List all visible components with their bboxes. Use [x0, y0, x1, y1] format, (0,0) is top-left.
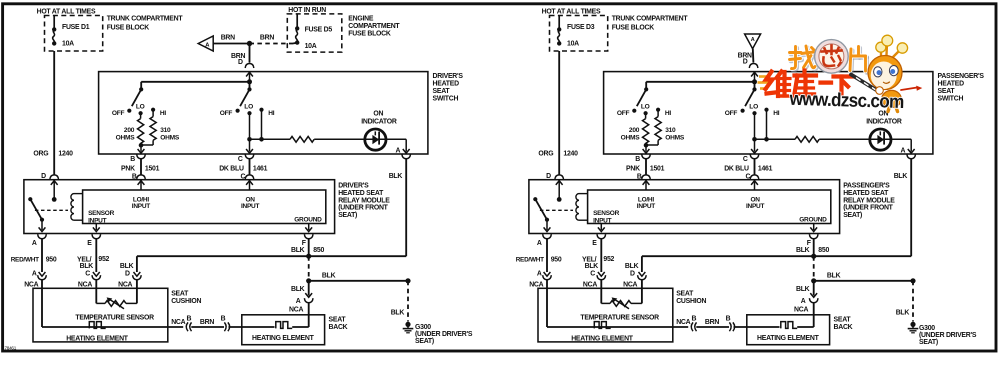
- svg-text:BACK: BACK: [834, 324, 853, 331]
- driver seat back box: [242, 315, 325, 345]
- svg-text:ENGINE: ENGINE: [348, 16, 374, 23]
- svg-text:NCA: NCA: [78, 281, 92, 288]
- svg-text:FUSE BLOCK: FUSE BLOCK: [348, 30, 391, 37]
- ground junction under relay module: [811, 254, 816, 259]
- svg-text:1501: 1501: [650, 165, 665, 172]
- svg-text:HEATED: HEATED: [433, 81, 460, 88]
- seat cushion heating element wire: [546, 288, 548, 327]
- watermark speed dashes: [759, 75, 768, 78]
- svg-text:BLK: BLK: [796, 247, 810, 254]
- svg-text:OFF: OFF: [725, 110, 738, 117]
- watermark magnifier with chip character: [817, 42, 846, 71]
- relay switch contact (upper): [28, 197, 32, 201]
- resistor 200 OHMS: [140, 113, 142, 118]
- ground junction under relay module: [306, 254, 311, 259]
- wire ORG 1240 from fuse down to relay module D (driver): [53, 51, 55, 175]
- relay mechanical link (dashed): [540, 209, 573, 211]
- driver seat cushion box: [33, 288, 168, 342]
- svg-text:NCA: NCA: [583, 281, 597, 288]
- watermark character pian (chip): [851, 51, 852, 73]
- svg-text:HOT AT ALL TIMES: HOT AT ALL TIMES: [37, 8, 96, 15]
- svg-text:BLK: BLK: [80, 263, 94, 270]
- lower ground junction: [811, 278, 816, 283]
- svg-text:HEATING ELEMENT: HEATING ELEMENT: [66, 336, 129, 343]
- svg-text:HEATED SEAT: HEATED SEAT: [843, 190, 889, 197]
- switch S2 OFF contact: [236, 109, 240, 113]
- svg-text:OFF: OFF: [617, 110, 630, 117]
- dashed BLK wire to ground G300: [912, 281, 914, 322]
- watermark character zhao (find): [793, 48, 797, 70]
- svg-text:INDICATOR: INDICATOR: [866, 118, 902, 125]
- wire YEL/BLK 952: [95, 239, 97, 272]
- svg-text:RELAY MODULE: RELAY MODULE: [338, 197, 390, 204]
- wire PNK 1501 from switch B to relay LO/HI input: [140, 159, 142, 175]
- svg-text:C: C: [590, 271, 595, 278]
- dashed BLK wire from junction down: [813, 256, 815, 281]
- switch S1 OFF contact: [632, 109, 636, 113]
- seat back heating element: [276, 322, 292, 329]
- svg-text:A: A: [751, 37, 755, 43]
- svg-text:952: 952: [603, 256, 614, 263]
- switch S1 HI contact: [151, 108, 155, 112]
- wire to indicator resistor: [755, 138, 796, 140]
- svg-text:OFF: OFF: [112, 110, 125, 117]
- svg-text:TRUNK COMPARTMENT: TRUNK COMPARTMENT: [612, 16, 689, 23]
- svg-text:HEATED: HEATED: [938, 81, 965, 88]
- svg-text:SEAT: SEAT: [171, 291, 189, 298]
- svg-text:HEATING ELEMENT: HEATING ELEMENT: [252, 335, 315, 342]
- passenger heated seat switch box: [604, 72, 933, 154]
- wire joining resistors to terminal B: [152, 140, 154, 145]
- ground G300: [405, 322, 410, 327]
- wire BLK to G300 branch: [814, 280, 913, 282]
- wire from indicator to terminal A of switch: [405, 139, 407, 151]
- passenger seat cushion box: [538, 288, 673, 342]
- svg-text:(UNDER FRONT: (UNDER FRONT: [338, 205, 388, 212]
- svg-text:1501: 1501: [145, 165, 160, 172]
- svg-text:A: A: [396, 148, 401, 155]
- svg-text:A: A: [32, 240, 37, 247]
- switch S1 pivot (mode switch): [139, 87, 143, 91]
- svg-text:952: 952: [98, 256, 109, 263]
- relay switch arm: [30, 199, 42, 220]
- svg-text:B: B: [187, 316, 192, 323]
- wire BLK from junction to seat cushion connector D: [137, 255, 309, 257]
- wire BRN into seat back: [229, 326, 275, 328]
- thermistor arrow: [614, 299, 629, 309]
- connector triangle A (to passenger seat circuit): [745, 34, 761, 49]
- svg-text:BLK: BLK: [291, 286, 305, 293]
- svg-text:SWITCH: SWITCH: [938, 95, 964, 102]
- svg-text:NCA: NCA: [623, 281, 637, 288]
- wire from S2 HI to indicator feed: [261, 110, 263, 140]
- svg-text:DRIVER'S: DRIVER'S: [433, 73, 464, 80]
- wire DK BLU 1461 from switch C to relay ON input: [754, 159, 756, 175]
- switch S2 OFF contact: [741, 109, 745, 113]
- svg-text:BLK: BLK: [896, 310, 910, 317]
- svg-text:B: B: [221, 316, 226, 323]
- switch S1 arm (pointing to OFF): [132, 89, 141, 106]
- svg-text:950: 950: [46, 257, 57, 264]
- relay coil: [579, 193, 588, 195]
- svg-text:LO: LO: [136, 103, 145, 110]
- wire from S2 LO down to terminal C: [754, 113, 756, 151]
- svg-text:www.dzsc.com: www.dzsc.com: [788, 89, 903, 113]
- svg-text:HEATING ELEMENT: HEATING ELEMENT: [571, 336, 634, 343]
- switch S2 pivot (on/off switch): [247, 87, 251, 91]
- driver relay module inner control box: [83, 190, 326, 224]
- svg-text:SENSOR: SENSOR: [88, 210, 115, 217]
- relay coil: [74, 193, 83, 195]
- svg-text:SEAT): SEAT): [415, 338, 434, 345]
- wire BLK from junction to seat cushion connector D: [642, 255, 814, 257]
- wire ORG 1240 from fuse down to relay module D (passenger): [558, 51, 560, 175]
- svg-text:CUSHION: CUSHION: [171, 298, 201, 305]
- svg-text:HOT IN RUN: HOT IN RUN: [288, 7, 326, 14]
- svg-text:HI: HI: [773, 110, 780, 117]
- wire from S2 LO down to terminal C: [249, 113, 251, 151]
- svg-text:LO: LO: [749, 103, 758, 110]
- svg-text:NCA: NCA: [529, 281, 543, 288]
- svg-text:SEAT): SEAT): [919, 339, 938, 346]
- svg-text:BLK: BLK: [291, 247, 305, 254]
- svg-text:FUSE D1: FUSE D1: [62, 24, 90, 31]
- svg-text:B: B: [635, 156, 640, 163]
- svg-text:INDICATOR: INDICATOR: [361, 118, 397, 125]
- jumper wire BRN between connectors: [696, 326, 729, 328]
- relay coil feed dot from D: [557, 197, 562, 202]
- switch S2 arm (pointing to OFF): [240, 89, 249, 106]
- switch S1 LO contact: [644, 111, 648, 115]
- switch S2 HI contact: [259, 108, 263, 112]
- seat cushion heating element: [89, 322, 105, 329]
- lower ground junction: [306, 278, 311, 283]
- relay switch contact (upper): [533, 197, 537, 201]
- wire RED/WHT 950: [41, 239, 43, 272]
- svg-text:SEAT: SEAT: [938, 88, 956, 95]
- svg-text:LO: LO: [641, 103, 650, 110]
- driver heated seat switch box: [99, 72, 428, 154]
- inline connector B (seat back side): [224, 322, 226, 331]
- switch S2 HI contact: [764, 108, 768, 112]
- passenger heated seat relay module outer box: [529, 180, 840, 234]
- wire YEL/BLK 952: [600, 239, 602, 272]
- wire BRN into seat back: [734, 326, 780, 328]
- svg-text:HEATING ELEMENT: HEATING ELEMENT: [757, 335, 820, 342]
- dashed BRN wire to fuse D5: [250, 43, 294, 45]
- svg-text:FUSE BLOCK: FUSE BLOCK: [612, 25, 655, 32]
- svg-text:1240: 1240: [563, 151, 578, 158]
- svg-text:DK BLU: DK BLU: [724, 165, 749, 172]
- wire RED/WHT 950: [546, 239, 548, 272]
- switch S2 pivot (on/off switch): [752, 87, 756, 91]
- svg-text:RED/WHT: RED/WHT: [516, 257, 544, 264]
- svg-text:OHMS: OHMS: [116, 134, 136, 141]
- junction of feed rail and D input: [752, 79, 757, 84]
- wire BRN from triangle down into passenger switch: [752, 49, 755, 63]
- wire joining resistors to terminal B: [657, 140, 659, 145]
- watermark red text wei ku yi xia: [766, 72, 773, 90]
- svg-text:850: 850: [313, 247, 324, 254]
- relay mechanical link (dashed): [35, 209, 68, 211]
- svg-text:INPUT: INPUT: [132, 203, 151, 210]
- passenger relay module inner control box: [588, 190, 831, 224]
- svg-text:850: 850: [818, 247, 829, 254]
- svg-text:(UNDER FRONT: (UNDER FRONT: [843, 205, 893, 212]
- svg-text:DK BLU: DK BLU: [219, 165, 244, 172]
- trunk compartment fuse block (dashed box, driver): [45, 16, 103, 52]
- wire from S2 HI to indicator feed: [766, 110, 768, 140]
- svg-text:BLK: BLK: [827, 272, 841, 279]
- svg-text:BLK: BLK: [322, 272, 336, 279]
- svg-text:310: 310: [665, 127, 676, 134]
- svg-text:BRN: BRN: [200, 319, 214, 326]
- wire PNK 1501 from switch B to relay LO/HI input: [645, 159, 647, 175]
- watermark mascot: [851, 35, 922, 111]
- svg-text:BLK: BLK: [391, 310, 405, 317]
- relay output to terminal A: [546, 220, 548, 230]
- svg-text:C: C: [85, 271, 90, 278]
- svg-text:D: D: [238, 59, 243, 66]
- switch S1 OFF contact: [127, 109, 131, 113]
- wire BRN from triangle to junction: [213, 43, 249, 45]
- switch S1 LO contact: [139, 111, 143, 115]
- svg-text:950: 950: [551, 257, 562, 264]
- wire BLK to G300 branch: [309, 280, 408, 282]
- svg-text:SENSOR: SENSOR: [593, 210, 620, 217]
- svg-text:A: A: [537, 240, 542, 247]
- fuse D1 symbol: [53, 16, 55, 30]
- junction of feed rail and D input: [247, 79, 252, 84]
- svg-text:SEAT): SEAT): [843, 212, 862, 219]
- svg-text:PNK: PNK: [121, 165, 135, 172]
- switch S1 arm (pointing to OFF): [637, 89, 646, 106]
- svg-text:SEAT: SEAT: [329, 317, 347, 324]
- svg-text:HEATED SEAT: HEATED SEAT: [338, 190, 384, 197]
- svg-text:NCA: NCA: [289, 307, 303, 314]
- svg-text:INPUT: INPUT: [88, 217, 107, 224]
- svg-text:A: A: [537, 271, 542, 278]
- svg-text:D: D: [743, 58, 748, 65]
- relay coil feed dot from D: [52, 197, 57, 202]
- dashed BLK wire to ground G300: [407, 281, 409, 322]
- trunk compartment fuse block (dashed box, passenger): [550, 16, 608, 52]
- svg-text:C: C: [238, 156, 243, 163]
- svg-text:C: C: [743, 156, 748, 163]
- svg-text:BLK: BLK: [120, 263, 134, 270]
- svg-text:E: E: [592, 240, 597, 247]
- svg-text:NCA: NCA: [24, 281, 38, 288]
- wire BLK 850 from ground terminal: [308, 239, 310, 256]
- wire BLK to seat back heating element: [308, 281, 310, 296]
- svg-text:SEAT: SEAT: [676, 291, 694, 298]
- svg-text:ON: ON: [373, 111, 383, 118]
- svg-text:NCA: NCA: [676, 319, 690, 326]
- relay switch contact to output A: [40, 218, 44, 222]
- ON indicator LED L1: [365, 138, 406, 140]
- resistor 310 OHMS: [152, 110, 154, 117]
- junction of BRN feed: [247, 41, 252, 46]
- svg-text:B: B: [692, 316, 697, 323]
- fuse D5 symbol: [296, 14, 298, 29]
- switch S1 pivot (mode switch): [644, 87, 648, 91]
- connector triangle A (to driver seat circuit): [198, 36, 213, 51]
- svg-text:OFF: OFF: [220, 110, 233, 117]
- svg-text:310: 310: [160, 127, 171, 134]
- wire from resistor to ON indicator: [819, 138, 870, 140]
- switch S2 LO contact: [752, 111, 756, 115]
- driver heated seat relay module outer box: [24, 180, 335, 234]
- wire BLK 850 from ground terminal: [813, 239, 815, 256]
- svg-text:A: A: [32, 271, 37, 278]
- watermark group: [758, 35, 923, 113]
- svg-text:ORG: ORG: [33, 151, 48, 158]
- seat cushion heating element: [594, 322, 610, 329]
- svg-text:INPUT: INPUT: [593, 217, 612, 224]
- resistor 310 OHMS: [657, 110, 659, 117]
- svg-text:HI: HI: [268, 110, 275, 117]
- resistor 200 OHMS: [645, 113, 647, 118]
- relay switch contact to output A: [545, 218, 549, 222]
- svg-text:PASSENGER'S: PASSENGER'S: [938, 73, 985, 80]
- svg-text:HOT AT ALL TIMES: HOT AT ALL TIMES: [542, 8, 601, 15]
- svg-text:200: 200: [124, 127, 135, 134]
- svg-text:OHMS: OHMS: [621, 134, 641, 141]
- svg-text:A: A: [901, 148, 906, 155]
- temperature sensor thermistor: [601, 302, 610, 304]
- wire: feed rail inside switch box: [646, 81, 754, 83]
- dashed BLK wire from junction down: [308, 256, 310, 281]
- svg-text:B: B: [130, 156, 135, 163]
- svg-text:1461: 1461: [253, 165, 268, 172]
- svg-text:INPUT: INPUT: [746, 203, 765, 210]
- svg-text:OHMS: OHMS: [665, 134, 685, 141]
- svg-text:10A: 10A: [62, 41, 74, 48]
- wire BLK to seat back heating element: [813, 281, 815, 296]
- svg-text:DRIVER'S: DRIVER'S: [338, 183, 369, 190]
- svg-text:SEAT: SEAT: [433, 88, 451, 95]
- svg-text:BLK: BLK: [894, 173, 908, 180]
- svg-text:PASSENGER'S: PASSENGER'S: [843, 183, 890, 190]
- switch S2 LO contact: [247, 111, 251, 115]
- svg-text:SWITCH: SWITCH: [433, 95, 459, 102]
- svg-text:TEMPERATURE SENSOR: TEMPERATURE SENSOR: [580, 315, 659, 322]
- svg-text:OHMS: OHMS: [160, 134, 180, 141]
- wire from indicator to terminal A of switch: [910, 139, 912, 151]
- sensor input terminal E arrow: [95, 224, 97, 231]
- ground terminal F arrow: [813, 224, 815, 231]
- svg-text:BLK: BLK: [796, 286, 810, 293]
- svg-text:BLK: BLK: [625, 263, 639, 270]
- temperature sensor thermistor: [96, 302, 105, 304]
- svg-text:INPUT: INPUT: [241, 203, 260, 210]
- svg-text:D: D: [630, 271, 635, 278]
- svg-text:GROUND: GROUND: [799, 216, 827, 223]
- svg-text:NCA: NCA: [118, 281, 132, 288]
- svg-text:FUSE BLOCK: FUSE BLOCK: [107, 25, 150, 32]
- inline connector B (seat back side): [729, 322, 731, 331]
- passenger seat back box: [747, 315, 830, 345]
- svg-text:NCA: NCA: [794, 307, 808, 314]
- svg-text:FUSE D5: FUSE D5: [305, 27, 333, 34]
- indicator series resistor: [290, 136, 314, 142]
- svg-text:PNK: PNK: [626, 165, 640, 172]
- switch S1 HI contact: [656, 108, 660, 112]
- relay output to terminal A: [41, 220, 43, 230]
- svg-text:1461: 1461: [758, 165, 773, 172]
- wire: feed rail inside switch box: [141, 81, 249, 83]
- svg-text:CUSHION: CUSHION: [676, 298, 706, 305]
- character xin inside magnifier: [825, 49, 827, 54]
- ON indicator LED L1: [870, 138, 911, 140]
- svg-text:78461: 78461: [5, 346, 17, 351]
- indicator series resistor: [795, 136, 819, 142]
- svg-text:TEMPERATURE SENSOR: TEMPERATURE SENSOR: [75, 315, 154, 322]
- svg-text:B: B: [726, 316, 731, 323]
- svg-text:BRN: BRN: [705, 319, 719, 326]
- fuse D3 symbol: [558, 16, 560, 30]
- ground terminal F arrow: [308, 224, 310, 231]
- svg-text:200: 200: [629, 127, 640, 134]
- switch S2 arm (pointing to OFF): [745, 89, 754, 106]
- ground G300: [910, 322, 915, 327]
- svg-text:10A: 10A: [305, 43, 317, 50]
- svg-text:HI: HI: [665, 110, 672, 117]
- svg-text:RELAY MODULE: RELAY MODULE: [843, 197, 895, 204]
- svg-text:BLK: BLK: [389, 173, 403, 180]
- svg-text:SEAT): SEAT): [338, 212, 357, 219]
- svg-text:GROUND: GROUND: [294, 216, 322, 223]
- seat back heating element: [781, 322, 797, 329]
- svg-text:HI: HI: [160, 110, 167, 117]
- svg-text:BACK: BACK: [329, 324, 348, 331]
- svg-text:BLK: BLK: [585, 263, 599, 270]
- engine compartment fuse block (dashed box): [287, 14, 342, 52]
- wire DK BLU 1461 from switch C to relay ON input: [249, 159, 251, 175]
- svg-text:BRN: BRN: [260, 35, 274, 42]
- wire to indicator resistor: [250, 138, 291, 140]
- wire from resistor to ON indicator: [314, 138, 365, 140]
- svg-text:RED/WHT: RED/WHT: [11, 257, 39, 264]
- svg-text:ORG: ORG: [538, 151, 553, 158]
- svg-text:TRUNK COMPARTMENT: TRUNK COMPARTMENT: [107, 16, 184, 23]
- thermistor arrow: [109, 299, 124, 309]
- relay switch arm: [535, 199, 547, 220]
- svg-text:A: A: [296, 298, 301, 305]
- svg-text:A: A: [801, 298, 806, 305]
- svg-text:COMPARTMENT: COMPARTMENT: [348, 23, 400, 30]
- sensor input terminal E arrow: [600, 224, 602, 231]
- svg-text:NCA: NCA: [171, 319, 185, 326]
- svg-text:FUSE D3: FUSE D3: [567, 24, 595, 31]
- svg-text:LO: LO: [244, 103, 253, 110]
- svg-text:E: E: [87, 240, 92, 247]
- svg-text:D: D: [125, 271, 130, 278]
- svg-text:INPUT: INPUT: [637, 203, 656, 210]
- svg-text:BRN: BRN: [221, 35, 235, 42]
- jumper wire BRN between connectors: [191, 326, 224, 328]
- svg-text:10A: 10A: [567, 41, 579, 48]
- svg-text:SEAT: SEAT: [834, 317, 852, 324]
- svg-text:1240: 1240: [58, 151, 73, 158]
- seat cushion heating element wire: [41, 288, 43, 327]
